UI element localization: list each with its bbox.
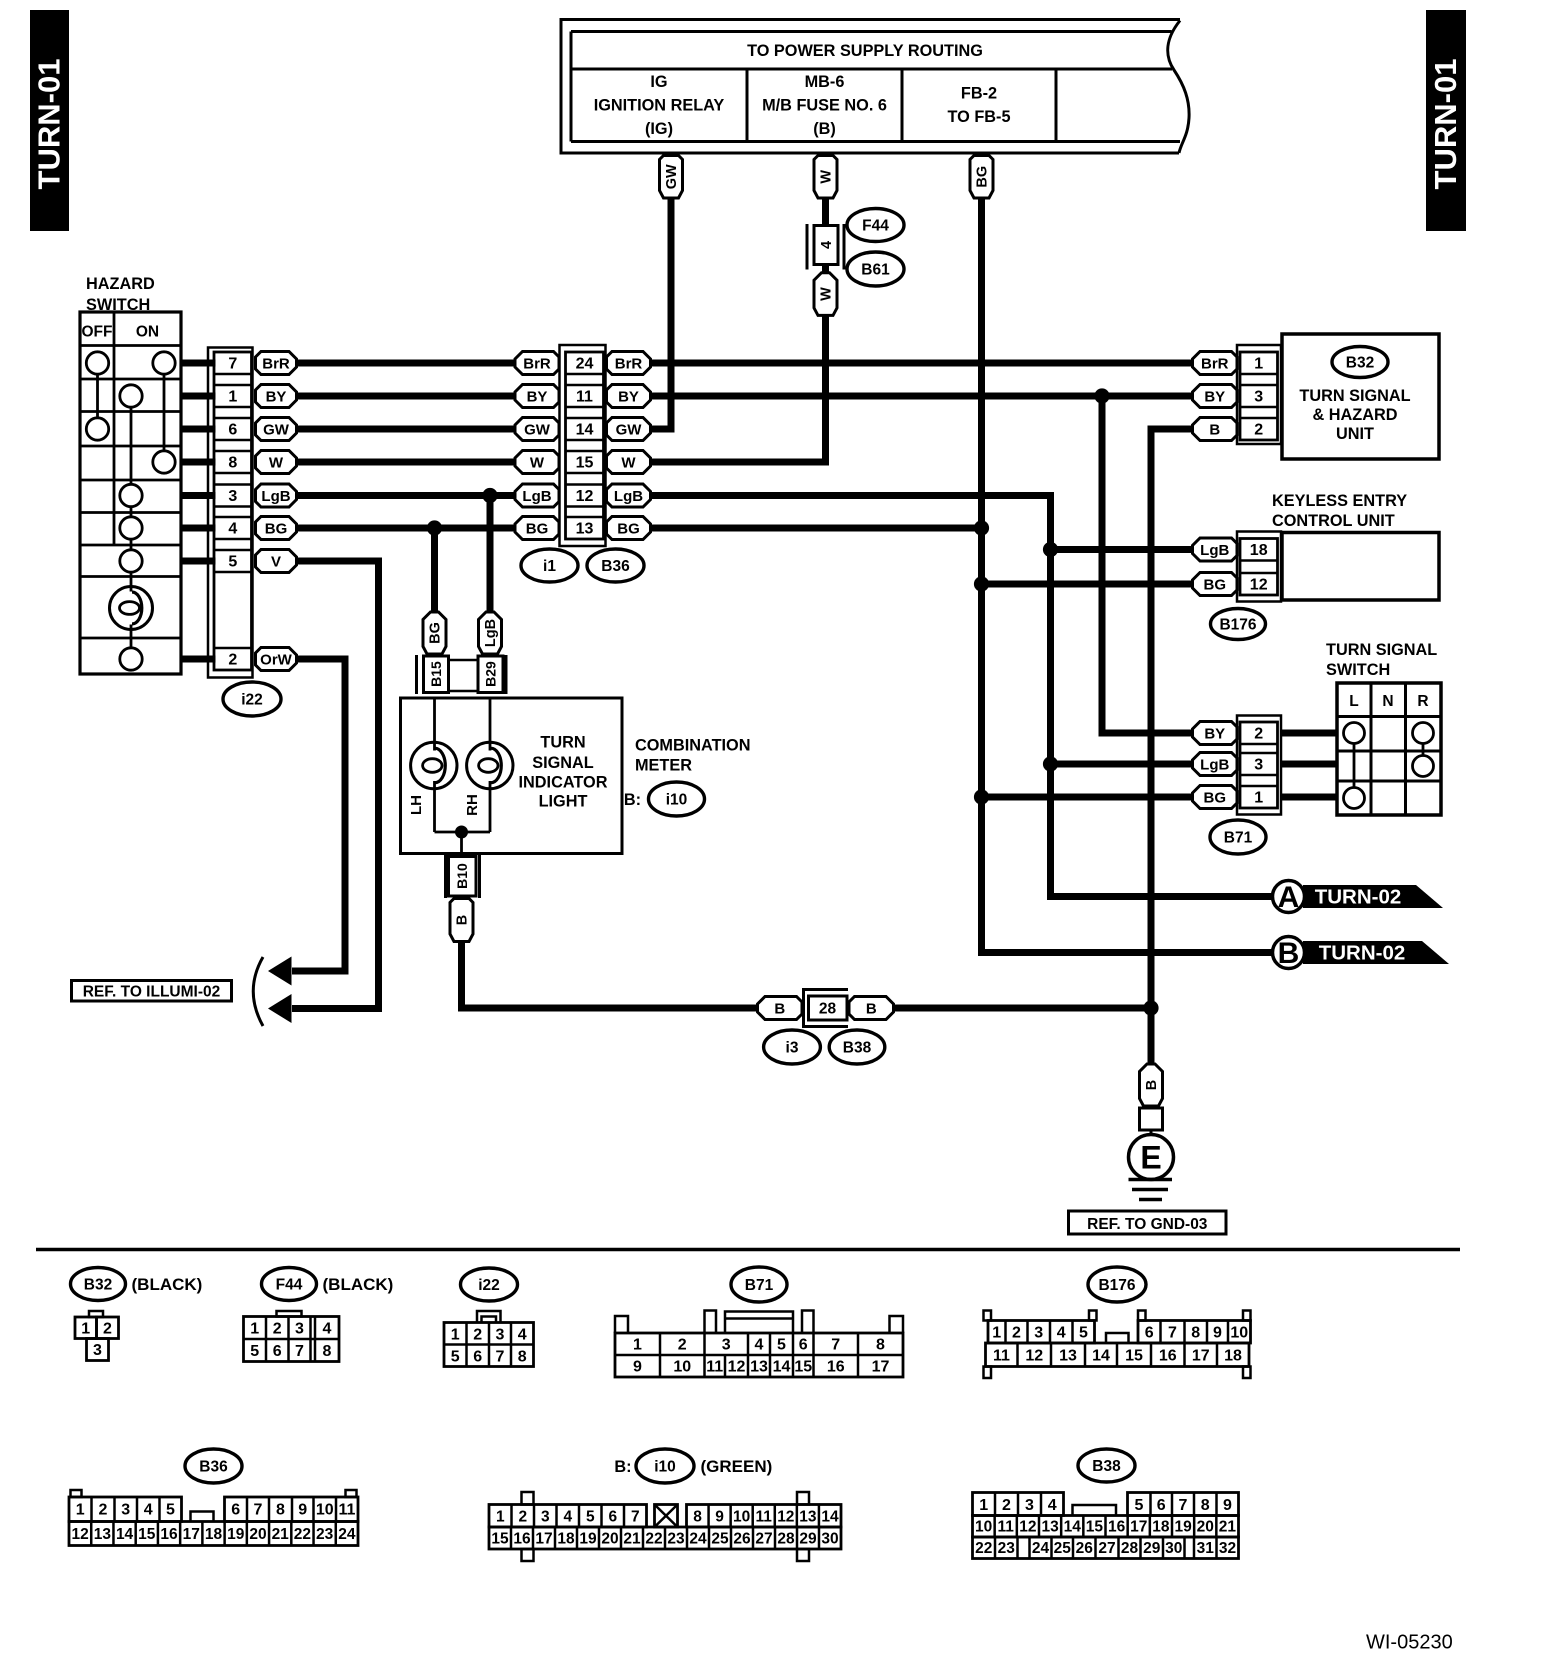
svg-text:INDICATOR: INDICATOR (519, 774, 608, 792)
wire LH bulb bottom (433, 781, 436, 832)
wire label W i1 left (515, 451, 559, 474)
wire BG vertical (982, 198, 1273, 953)
svg-text:14: 14 (1092, 1348, 1110, 1365)
wire W upper (822, 198, 829, 226)
wire BY row right (651, 393, 1193, 400)
connector diagram B38 (973, 1449, 1239, 1559)
svg-text:GW: GW (664, 164, 680, 189)
svg-text:3: 3 (496, 1327, 505, 1344)
svg-text:4: 4 (819, 241, 835, 249)
label B61 (847, 252, 904, 286)
svg-text:V: V (271, 553, 281, 570)
REF. TO GND-03 box (1069, 1211, 1227, 1234)
svg-text:BG: BG (617, 520, 640, 537)
svg-text:6: 6 (799, 1337, 808, 1354)
svg-text:LgB: LgB (614, 488, 643, 505)
connector label i3 (764, 1030, 821, 1064)
connector B71 bracket (1237, 716, 1281, 815)
svg-text:BY: BY (527, 388, 548, 405)
svg-text:B29: B29 (483, 661, 499, 687)
svg-text:17: 17 (1192, 1348, 1210, 1365)
svg-text:CONTROL UNIT: CONTROL UNIT (1272, 512, 1395, 530)
svg-text:11: 11 (998, 1519, 1015, 1536)
svg-text:22: 22 (645, 1531, 662, 1548)
svg-text:BG: BG (1204, 789, 1227, 806)
svg-text:5: 5 (250, 1343, 259, 1360)
svg-text:7: 7 (1168, 1325, 1177, 1342)
svg-text:10: 10 (316, 1502, 334, 1519)
right title banner TURN-01 (1426, 10, 1466, 231)
svg-text:(BLACK): (BLACK) (323, 1275, 394, 1294)
connector label B176 (1211, 609, 1266, 640)
wire label BrR B36 right (607, 352, 651, 375)
connector label B71 (1210, 820, 1266, 854)
connector i1/B36 pin column (566, 352, 604, 539)
svg-text:(BLACK): (BLACK) (132, 1275, 203, 1294)
junction B/ground (1143, 1000, 1158, 1015)
wire label LgB B36 right (607, 484, 651, 507)
svg-text:B: B (1209, 421, 1220, 438)
svg-text:5: 5 (451, 1349, 460, 1366)
wire turn signal switch stub 1 (1281, 730, 1338, 737)
svg-text:B71: B71 (745, 1277, 774, 1294)
wire label W B36 right (607, 451, 651, 474)
wire BG row left (297, 525, 516, 532)
connector i22 bracket (208, 348, 253, 678)
arrow V (268, 994, 292, 1023)
terminal W top (814, 156, 837, 199)
svg-text:12: 12 (576, 488, 594, 505)
svg-text:TO FB-5: TO FB-5 (947, 108, 1010, 126)
svg-text:30: 30 (821, 1531, 838, 1548)
wire LgB row right (651, 496, 1273, 897)
svg-text:3: 3 (1254, 757, 1263, 774)
arrow OrW (268, 957, 292, 986)
junction BG row (974, 520, 989, 535)
svg-text:ON: ON (136, 324, 159, 341)
svg-text:12: 12 (1019, 1519, 1036, 1536)
svg-text:BY: BY (1204, 388, 1225, 405)
wire label BrR i22 (256, 352, 297, 375)
terminal B B10 (450, 899, 473, 942)
svg-text:12: 12 (71, 1526, 88, 1543)
svg-text:N: N (1382, 693, 1393, 710)
svg-text:14: 14 (576, 422, 594, 439)
wire label BrR i1 left (515, 352, 559, 375)
wire LH bulb top (433, 698, 436, 751)
svg-text:(B): (B) (813, 120, 836, 138)
wire BrR row left (297, 360, 516, 367)
svg-text:BY: BY (1204, 725, 1225, 742)
wire label BG B71 (1193, 786, 1238, 809)
svg-text:14: 14 (1064, 1519, 1082, 1536)
svg-text:2: 2 (1254, 726, 1263, 743)
svg-text:17: 17 (183, 1526, 200, 1543)
svg-text:29: 29 (1143, 1540, 1161, 1557)
svg-text:11: 11 (756, 1509, 773, 1526)
wire hazard switch stub 6 (181, 525, 216, 532)
svg-text:BG: BG (1204, 576, 1227, 593)
svg-text:8: 8 (693, 1509, 702, 1526)
wire label LgB i1 left (515, 484, 559, 507)
svg-text:TURN: TURN (540, 734, 585, 752)
svg-text:HAZARD: HAZARD (86, 275, 155, 293)
svg-text:7: 7 (631, 1509, 640, 1526)
wire BG row right (651, 525, 982, 532)
svg-text:6: 6 (273, 1343, 282, 1360)
svg-text:15: 15 (1086, 1519, 1104, 1536)
connector i3/B38 28 (804, 990, 849, 1027)
hazard switch illumination bulb (110, 587, 153, 630)
svg-text:20: 20 (249, 1526, 266, 1543)
wire label BG B176 (1193, 573, 1238, 596)
svg-text:12: 12 (777, 1509, 794, 1526)
junction LgB keyless (1043, 542, 1058, 557)
svg-text:7: 7 (496, 1349, 505, 1366)
svg-text:& HAZARD: & HAZARD (1312, 406, 1397, 424)
svg-text:15: 15 (576, 455, 594, 472)
svg-text:4: 4 (1048, 1497, 1057, 1514)
svg-text:18: 18 (205, 1526, 223, 1543)
svg-text:16: 16 (513, 1531, 531, 1548)
svg-text:3: 3 (722, 1337, 731, 1354)
svg-text:BrR: BrR (262, 355, 290, 372)
wire BG drop B15 (431, 528, 438, 612)
svg-text:25: 25 (1054, 1540, 1072, 1557)
svg-text:13: 13 (1059, 1348, 1077, 1365)
svg-text:1: 1 (76, 1502, 85, 1519)
svg-text:BY: BY (266, 388, 287, 405)
wire label BY i22 (256, 385, 297, 408)
svg-text:27: 27 (755, 1531, 772, 1548)
wire label LgB i22 (256, 484, 297, 507)
svg-text:i10: i10 (666, 792, 688, 809)
fuse F44 4 (807, 224, 844, 270)
wire turn signal switch stub 2 (1281, 761, 1338, 768)
svg-text:B38: B38 (843, 1040, 872, 1057)
terminal BG (970, 156, 993, 199)
junction BY (1094, 388, 1109, 403)
svg-text:16: 16 (827, 1359, 845, 1376)
terminal W lower (814, 273, 837, 316)
svg-text:1: 1 (496, 1509, 505, 1526)
svg-text:6: 6 (1157, 1497, 1166, 1514)
svg-text:(IG): (IG) (645, 120, 673, 138)
svg-text:B38: B38 (1092, 1458, 1121, 1475)
svg-text:REF. TO ILLUMI-02: REF. TO ILLUMI-02 (83, 984, 221, 1001)
svg-text:E: E (1140, 1140, 1161, 1176)
svg-text:19: 19 (1174, 1519, 1192, 1536)
connector diagram F44 (244, 1268, 394, 1362)
svg-text:28: 28 (819, 1001, 837, 1018)
connector label i22 (223, 682, 281, 716)
combination meter box (401, 698, 623, 854)
svg-text:OrW: OrW (260, 651, 293, 668)
svg-text:5: 5 (777, 1337, 786, 1354)
svg-text:i3: i3 (786, 1040, 799, 1057)
svg-text:22: 22 (975, 1540, 992, 1557)
turn signal switch (1326, 641, 1441, 815)
connector B71 pin column (1240, 722, 1278, 808)
hazard switch (80, 275, 181, 674)
wire label LgB B71 (1193, 753, 1238, 776)
svg-text:2: 2 (473, 1327, 482, 1344)
svg-text:1: 1 (451, 1327, 460, 1344)
wire label BY B32 (1193, 385, 1238, 408)
svg-text:27: 27 (1098, 1540, 1115, 1557)
svg-text:2: 2 (518, 1509, 527, 1526)
wire W lower (651, 315, 826, 462)
connector diagram B176 (984, 1267, 1251, 1378)
svg-text:6: 6 (1145, 1325, 1154, 1342)
svg-text:26: 26 (733, 1531, 751, 1548)
svg-text:GW: GW (616, 421, 643, 438)
connector i22 pin column (214, 352, 252, 670)
svg-text:LgB: LgB (1200, 542, 1229, 559)
svg-text:4: 4 (518, 1327, 527, 1344)
svg-text:UNIT: UNIT (1336, 425, 1374, 443)
svg-text:F44: F44 (276, 1277, 303, 1294)
wire OrW to ILLUMI (292, 659, 345, 971)
svg-text:11: 11 (576, 389, 593, 406)
ground connector box (1140, 1108, 1163, 1130)
svg-text:24: 24 (1032, 1540, 1050, 1557)
svg-text:REF. TO GND-03: REF. TO GND-03 (1087, 1216, 1208, 1233)
svg-text:3: 3 (228, 488, 237, 505)
svg-text:3: 3 (121, 1502, 130, 1519)
svg-text:F44: F44 (862, 218, 889, 235)
svg-text:LgB: LgB (261, 488, 290, 505)
svg-text:10: 10 (673, 1359, 691, 1376)
wire BY vertical (1102, 396, 1193, 733)
wire LgB row left (297, 492, 516, 499)
svg-text:2: 2 (678, 1337, 687, 1354)
svg-text:13: 13 (94, 1526, 112, 1543)
svg-text:17: 17 (872, 1359, 890, 1376)
svg-text:7: 7 (831, 1337, 840, 1354)
svg-text:8: 8 (276, 1502, 285, 1519)
svg-text:18: 18 (1224, 1348, 1242, 1365)
connector label i1 (521, 549, 578, 582)
wire turn signal switch stub 3 (1281, 794, 1338, 801)
wire keyless LgB row (1051, 546, 1193, 553)
svg-text:TURN-02: TURN-02 (1315, 886, 1402, 909)
wire label B B32 (1193, 418, 1238, 441)
svg-text:12: 12 (1250, 577, 1268, 594)
connector B176 pin column (1240, 539, 1278, 596)
wire label V i22 (256, 550, 297, 573)
svg-text:2: 2 (1012, 1325, 1021, 1342)
svg-text:9: 9 (715, 1509, 724, 1526)
wire meter output (460, 832, 463, 857)
connector diagram i22 (444, 1268, 534, 1367)
wire bulb join (435, 831, 491, 834)
svg-text:B: B (1144, 1080, 1160, 1090)
wire hazard switch stub 2 (181, 393, 216, 400)
svg-text:24: 24 (576, 356, 594, 373)
svg-text:FB-2: FB-2 (961, 85, 997, 103)
svg-text:18: 18 (1250, 542, 1268, 559)
wire V to ILLUMI (292, 561, 379, 1009)
svg-text:9: 9 (1213, 1325, 1222, 1342)
wire label BG i1 left (515, 517, 559, 540)
wire GW row left (297, 426, 516, 433)
svg-text:13: 13 (750, 1359, 768, 1376)
svg-text:4: 4 (144, 1502, 153, 1519)
svg-text:LH: LH (408, 795, 425, 815)
wire B vertical (1151, 429, 1193, 1064)
bulb LH (411, 742, 457, 788)
svg-text:L: L (1349, 693, 1358, 710)
svg-text:W: W (621, 454, 636, 471)
terminal GW (660, 156, 683, 199)
svg-text:28: 28 (1121, 1540, 1139, 1557)
svg-text:W: W (819, 287, 835, 301)
svg-text:BY: BY (618, 388, 639, 405)
svg-text:15: 15 (1125, 1348, 1143, 1365)
svg-text:1: 1 (250, 1321, 259, 1338)
svg-text:7: 7 (1179, 1497, 1188, 1514)
power supply routing box (561, 20, 1189, 154)
wire W mid (822, 265, 829, 274)
wire label OrW i22 (256, 648, 297, 671)
svg-text:6: 6 (608, 1509, 617, 1526)
svg-text:BrR: BrR (523, 355, 551, 372)
svg-text:5: 5 (1079, 1325, 1088, 1342)
svg-text:21: 21 (623, 1531, 641, 1548)
svg-text:B32: B32 (84, 1277, 112, 1294)
svg-text:16: 16 (160, 1526, 178, 1543)
terminal B ground (1140, 1064, 1163, 1106)
connector label B32 (1332, 347, 1388, 378)
svg-text:21: 21 (272, 1526, 290, 1543)
svg-text:SIGNAL: SIGNAL (532, 754, 594, 772)
svg-text:B: B (1278, 937, 1300, 970)
wire label GW i1 left (515, 418, 559, 441)
wire hazard switch stub 1 (181, 360, 216, 367)
svg-text:WI-05230: WI-05230 (1366, 1632, 1453, 1654)
svg-text:RH: RH (464, 794, 481, 816)
svg-text:5: 5 (228, 554, 237, 571)
svg-text:B15: B15 (428, 661, 444, 687)
svg-text:LgB: LgB (1200, 756, 1229, 773)
keyless entry control unit box (1272, 492, 1439, 600)
svg-text:9: 9 (1223, 1497, 1232, 1514)
svg-text:(GREEN): (GREEN) (701, 1457, 773, 1476)
svg-text:2: 2 (1254, 422, 1263, 439)
svg-text:3: 3 (93, 1342, 102, 1359)
svg-text:B176: B176 (1098, 1277, 1135, 1294)
svg-text:BrR: BrR (615, 355, 643, 372)
junction BG/B15 (427, 520, 442, 535)
wire BrR row right (651, 360, 1193, 367)
wire ground stub (1150, 1130, 1153, 1136)
svg-text:11: 11 (993, 1348, 1010, 1365)
connector diagram B36 (69, 1449, 358, 1546)
svg-text:B36: B36 (601, 558, 630, 575)
svg-text:B:: B: (614, 1458, 631, 1476)
svg-text:4: 4 (228, 521, 237, 538)
wire B71 BG row (982, 794, 1193, 801)
wire label LgB B176 (1193, 538, 1238, 561)
wire label GW i22 (256, 418, 297, 441)
svg-text:19: 19 (579, 1531, 597, 1548)
svg-text:26: 26 (1076, 1540, 1094, 1557)
svg-text:15: 15 (794, 1359, 812, 1376)
svg-text:25: 25 (711, 1531, 729, 1548)
bulb RH (467, 742, 513, 788)
connector B32 bracket (1237, 345, 1281, 444)
svg-text:14: 14 (116, 1526, 134, 1543)
svg-text:5: 5 (166, 1502, 175, 1519)
svg-text:TURN-01: TURN-01 (1428, 59, 1463, 190)
terminal LgB B29 (479, 612, 502, 654)
svg-text:14: 14 (773, 1359, 791, 1376)
svg-text:3: 3 (1034, 1325, 1043, 1342)
svg-text:2: 2 (1002, 1497, 1011, 1514)
svg-text:28: 28 (777, 1531, 795, 1548)
wire label B B38 right (849, 997, 894, 1020)
separator line (36, 1248, 1460, 1252)
svg-text:13: 13 (799, 1509, 817, 1526)
wire label B i3 left (758, 997, 803, 1020)
svg-text:B32: B32 (1346, 355, 1374, 372)
flag B TURN-02 (1273, 937, 1450, 971)
svg-text:1: 1 (979, 1497, 988, 1514)
svg-text:1: 1 (81, 1321, 90, 1338)
svg-text:8: 8 (518, 1349, 527, 1366)
svg-text:3: 3 (1025, 1497, 1034, 1514)
wire W row left (297, 459, 516, 466)
svg-text:KEYLESS ENTRY: KEYLESS ENTRY (1272, 492, 1407, 510)
svg-text:TURN SIGNAL: TURN SIGNAL (1326, 641, 1437, 659)
svg-text:3: 3 (541, 1509, 550, 1526)
svg-text:5: 5 (586, 1509, 595, 1526)
svg-text:B36: B36 (199, 1459, 228, 1476)
junction LgB B71 (1043, 756, 1058, 771)
wire hazard switch stub 4 (181, 459, 216, 466)
svg-text:4: 4 (1057, 1325, 1066, 1342)
wire BY row left (297, 393, 516, 400)
svg-text:10: 10 (975, 1519, 992, 1536)
label F44 (847, 209, 904, 242)
svg-text:7: 7 (254, 1502, 263, 1519)
svg-text:LgB: LgB (483, 619, 499, 647)
svg-text:W: W (530, 454, 545, 471)
svg-text:IG: IG (650, 73, 667, 91)
svg-text:30: 30 (1165, 1540, 1182, 1557)
terminal BG B15 (423, 612, 446, 654)
svg-text:10: 10 (733, 1509, 750, 1526)
svg-text:OFF: OFF (82, 324, 113, 341)
svg-text:19: 19 (227, 1526, 245, 1543)
svg-text:B10: B10 (454, 863, 470, 889)
svg-text:17: 17 (535, 1531, 552, 1548)
svg-text:BG: BG (428, 622, 444, 644)
svg-text:16: 16 (1108, 1519, 1126, 1536)
svg-text:LgB: LgB (522, 488, 551, 505)
wire label BY B71 (1193, 722, 1238, 745)
svg-text:GW: GW (524, 421, 551, 438)
svg-text:8: 8 (876, 1337, 885, 1354)
svg-text:29: 29 (799, 1531, 817, 1548)
svg-text:METER: METER (635, 757, 692, 775)
svg-text:18: 18 (1152, 1519, 1170, 1536)
connector B32 pin column (1240, 352, 1278, 440)
svg-text:4: 4 (323, 1321, 332, 1338)
svg-text:23: 23 (667, 1531, 685, 1548)
svg-text:SWITCH: SWITCH (1326, 661, 1390, 679)
